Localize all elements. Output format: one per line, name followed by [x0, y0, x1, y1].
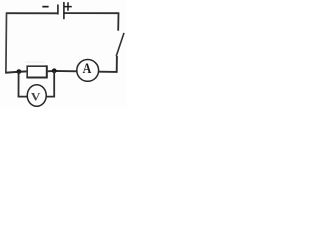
svg-text:V: V — [31, 91, 41, 104]
wire ammeter right + up to switch bottom — [98, 56, 117, 72]
faint scan ghost above resistor — [25, 62, 45, 63]
label minus — [42, 6, 48, 8]
battery negative plate (short) — [57, 5, 59, 15]
wire left vertical — [5, 13, 8, 73]
wire top horizontal right (battery plus to top-right corner) — [64, 12, 119, 14]
wire right vertical (top wire down to switch top terminal) — [117, 13, 119, 31]
switch blade (open) — [116, 33, 124, 56]
svg-text:A: A — [83, 60, 92, 76]
wire voltmeter branch left (drop + bottom) — [19, 72, 28, 97]
wire voltmeter branch right (drop + bottom) — [46, 71, 54, 97]
ammeter A (circle) — [77, 60, 99, 82]
wire bottom-left horizontal to resistor — [5, 71, 27, 72]
node junction dot1 — [17, 69, 22, 74]
wire top horizontal left (battery minus to top-left corner) — [6, 12, 58, 14]
resistor R (rectangle) — [27, 66, 47, 77]
battery positive plate (tall) — [63, 2, 65, 19]
voltmeter V (circle) — [27, 85, 46, 107]
wire resistor right to ammeter — [48, 70, 77, 72]
node junction dot2 — [52, 68, 57, 73]
label plus — [64, 2, 72, 10]
